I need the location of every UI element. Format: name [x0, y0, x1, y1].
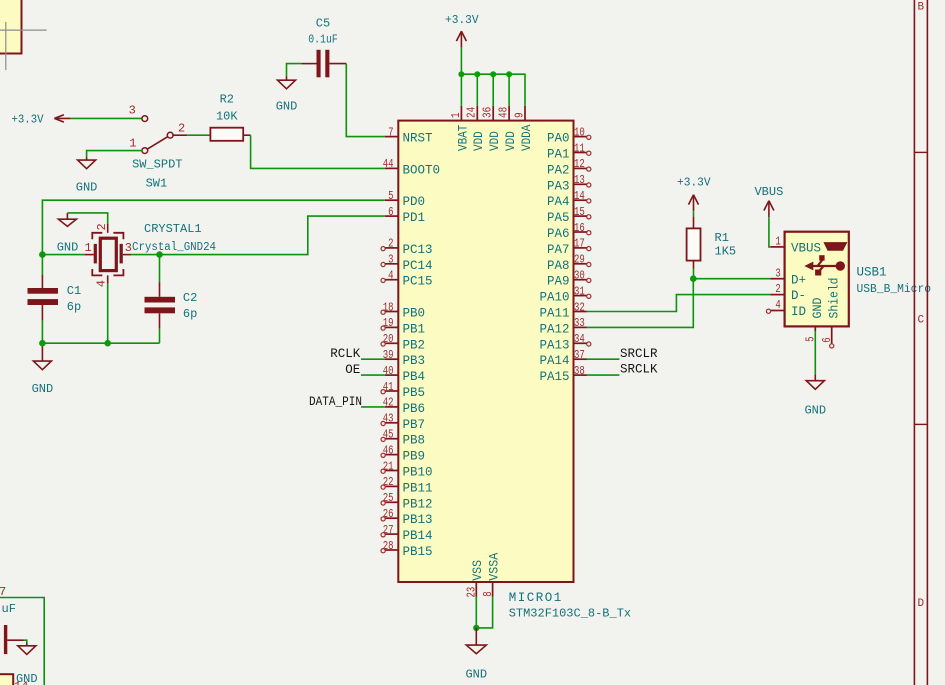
wire +3.3V to SW1 pin 3 — [71, 117, 142, 119]
MCU pin PC15 (4) — [385, 279, 398, 281]
svg-text:GND: GND — [465, 668, 487, 682]
wire bottom rail — [42, 342, 159, 344]
svg-text:PB0: PB0 — [403, 307, 426, 321]
wire VDD drop at x=461.4 — [460, 74, 462, 106]
svg-text:GND: GND — [76, 181, 98, 195]
svg-text:GND: GND — [57, 241, 79, 255]
crystal pin 3 lead — [123, 254, 131, 256]
+3.3V power symbol above MCU — [456, 31, 466, 47]
svg-text:R1: R1 — [715, 231, 729, 245]
svg-text:PB4: PB4 — [403, 370, 426, 384]
svg-text:C1: C1 — [67, 284, 81, 298]
svg-text:PA5: PA5 — [547, 211, 570, 225]
svg-text:+3.3V: +3.3V — [677, 175, 711, 189]
svg-text:+3.3V: +3.3V — [12, 113, 45, 127]
svg-text:SRCLK: SRCLK — [620, 363, 658, 377]
svg-text:17: 17 — [574, 237, 585, 251]
R1 pin 1 lead — [693, 216, 695, 228]
svg-text:43: 43 — [383, 412, 394, 426]
svg-text:33: 33 — [574, 316, 585, 330]
svg-text:1: 1 — [85, 241, 92, 255]
svg-text:GND: GND — [811, 298, 825, 319]
MCU pin PA4 (14) — [574, 199, 587, 201]
svg-text:D+: D+ — [791, 273, 806, 287]
anchor crosshair horizontal — [0, 29, 47, 31]
capacitor C1 — [28, 288, 59, 294]
svg-text:PA11: PA11 — [539, 307, 569, 321]
junction bottom rail left — [39, 340, 46, 347]
svg-text:PA12: PA12 — [539, 322, 569, 336]
wire PA11 to USB D- — [587, 295, 770, 312]
+3.3V power symbol above R1 — [689, 195, 699, 211]
svg-text:PB5: PB5 — [403, 386, 426, 400]
svg-text:38: 38 — [574, 364, 585, 378]
svg-text:26: 26 — [383, 507, 394, 521]
svg-text:28: 28 — [383, 539, 394, 553]
svg-text:1: 1 — [129, 137, 136, 151]
svg-text:VSSA: VSSA — [488, 552, 502, 580]
C5 pin 2 lead — [329, 63, 346, 65]
svg-text:20: 20 — [383, 332, 394, 346]
svg-text:8: 8 — [481, 591, 495, 596]
svg-text:MICRO1: MICRO1 — [509, 591, 563, 605]
wire junction to USB D+ — [693, 278, 770, 280]
ground above crystal — [66, 213, 68, 219]
svg-text:6: 6 — [388, 205, 393, 219]
C2 pin 2 lead — [159, 313, 161, 329]
svg-text:PA10: PA10 — [539, 291, 569, 305]
partial symbol bottom-left corner — [0, 674, 13, 685]
svg-text:OE: OE — [345, 363, 360, 377]
svg-text:PD1: PD1 — [403, 211, 426, 225]
MCU pin VSS (23) bottom — [475, 582, 477, 597]
svg-text:22: 22 — [383, 475, 394, 489]
wire PB3 stub — [361, 358, 385, 360]
svg-text:NRST: NRST — [403, 132, 434, 146]
svg-text:uF: uF — [2, 602, 16, 616]
svg-text:3: 3 — [775, 266, 780, 280]
svg-text:PA8: PA8 — [547, 259, 570, 273]
svg-text:+3.3V: +3.3V — [445, 13, 479, 27]
svg-text:BOOT0: BOOT0 — [403, 163, 441, 177]
svg-text:VDD: VDD — [488, 131, 502, 151]
junction R1/D+/PA12 — [690, 275, 697, 282]
wire junction to C1 — [41, 255, 43, 275]
sheet border tick C/D — [914, 423, 927, 425]
svg-text:VBUS: VBUS — [791, 242, 821, 256]
MCU pin PA2 (12) — [574, 167, 587, 169]
svg-text:PA3: PA3 — [547, 179, 570, 193]
junction +3.3V rail — [506, 71, 512, 77]
svg-text:PB10: PB10 — [403, 466, 433, 480]
crystal pin 2 lead — [107, 224, 109, 233]
svg-text:USB1: USB1 — [857, 266, 887, 280]
svg-text:PA7: PA7 — [547, 243, 570, 257]
svg-text:PB9: PB9 — [403, 450, 426, 464]
wire SW1 pin1 to GND — [87, 151, 142, 158]
USB1 pin VBUS (1) — [770, 246, 784, 248]
sheet border inner line — [913, 0, 915, 685]
svg-text:PA6: PA6 — [547, 227, 570, 241]
svg-text:44: 44 — [383, 157, 394, 171]
svg-text:9: 9 — [512, 112, 526, 118]
svg-text:PA2: PA2 — [547, 163, 570, 177]
wire crystal pin 3 to right junction — [131, 254, 159, 256]
svg-text:10: 10 — [574, 125, 585, 139]
svg-text:C: C — [917, 315, 924, 327]
svg-text:3: 3 — [125, 241, 132, 255]
MCU pin BOOT0 (44) — [385, 167, 398, 169]
R2 pin 2 lead — [243, 134, 250, 136]
microcontroller U MICRO1 STM32F103C_8-B_Tx body — [398, 121, 573, 582]
svg-text:PA0: PA0 — [547, 132, 570, 146]
crystal pin 1 lead — [84, 254, 93, 256]
svg-text:41: 41 — [383, 380, 394, 394]
svg-text:PC13: PC13 — [403, 243, 433, 257]
wire VSSA down — [476, 597, 492, 628]
MCU pin PC14 (3) — [385, 263, 398, 265]
MCU pin PD0 (5) — [385, 199, 398, 201]
wire GND to crystal pin 2 — [67, 213, 107, 224]
svg-text:GND: GND — [276, 99, 298, 113]
svg-text:30: 30 — [574, 269, 585, 283]
MCU pin PA1 (11) — [574, 152, 587, 154]
wire VBUS to USB pin 1 — [769, 217, 770, 247]
MCU pin PB10 (21) — [385, 470, 398, 472]
svg-text:2: 2 — [95, 223, 109, 230]
MCU pin PA10 (31) — [574, 295, 587, 297]
MCU pin PC13 (2) — [385, 247, 398, 249]
MCU pin PB0 (18) — [385, 311, 398, 313]
MCU pin PA13 (34) — [574, 342, 587, 344]
svg-text:4: 4 — [388, 269, 393, 283]
USB1 pin D+ (3) — [770, 278, 784, 280]
svg-text:PC14: PC14 — [403, 259, 433, 273]
MCU pin VDDA (9) top — [524, 106, 526, 121]
svg-text:Shield: Shield — [827, 278, 841, 319]
MCU pin PA3 (13) — [574, 183, 587, 185]
svg-text:31: 31 — [574, 284, 585, 298]
wire junction to C2 — [159, 255, 161, 283]
C5 pin 1 lead — [301, 63, 316, 65]
wire C1 to bottom rail — [41, 321, 43, 344]
svg-text:DATA_PIN: DATA_PIN — [309, 395, 362, 409]
svg-text:37: 37 — [574, 348, 585, 362]
MCU pin NRST (7) — [385, 136, 398, 138]
svg-text:C2: C2 — [183, 291, 197, 305]
wire capacitor to GND bottom-left — [24, 640, 27, 642]
MCU pin PA9 (30) — [574, 279, 587, 281]
MCU pin PA5 (15) — [574, 215, 587, 217]
svg-text:18: 18 — [383, 300, 394, 314]
wire R2 to BOOT0 — [251, 135, 385, 168]
wire USB GND down — [814, 331, 816, 375]
junction PD1/crystal right — [156, 251, 163, 258]
MCU pin PA8 (29) — [574, 263, 587, 265]
svg-text:PB6: PB6 — [403, 402, 426, 416]
MCU pin PB5 (41) — [385, 390, 398, 392]
MCU pin PB1 (19) — [385, 326, 398, 328]
svg-text:PA4: PA4 — [547, 195, 570, 209]
MCU pin PA14 (37) — [574, 358, 587, 360]
crystal pin 4 lead — [107, 275, 109, 283]
svg-text:0.1uF: 0.1uF — [308, 32, 338, 46]
resistor R1 — [687, 228, 701, 260]
svg-text:USB_B_Micro: USB_B_Micro — [857, 282, 932, 296]
svg-text:11: 11 — [574, 141, 585, 155]
junction +3.3V rail — [458, 71, 464, 77]
partial capacitor lead — [7, 639, 23, 641]
svg-text:D-: D- — [791, 289, 806, 303]
MCU pin PA11 (32) — [574, 311, 587, 313]
crystal shield bracket corners — [92, 233, 123, 276]
MCU pin PB3 (39) — [385, 358, 398, 360]
wire bottom-left — [0, 598, 44, 685]
svg-text:3: 3 — [388, 253, 393, 267]
junction PD0/crystal left — [39, 251, 46, 258]
svg-text:32: 32 — [574, 300, 585, 314]
svg-text:12: 12 — [574, 157, 585, 171]
svg-text:4: 4 — [775, 298, 780, 312]
svg-text:B: B — [917, 2, 924, 14]
svg-text:PA14: PA14 — [539, 354, 569, 368]
wire VSS down — [475, 597, 477, 628]
svg-text:VDDA: VDDA — [520, 124, 534, 151]
svg-text:1K5: 1K5 — [715, 244, 737, 258]
MCU pin PB7 (43) — [385, 422, 398, 424]
svg-text:4: 4 — [94, 280, 108, 287]
svg-text:13: 13 — [574, 173, 585, 187]
svg-text:RCLK: RCLK — [330, 347, 361, 361]
ground bottom-left — [26, 643, 28, 646]
svg-text:R2: R2 — [220, 93, 234, 107]
wire crystal to PD0 — [42, 200, 385, 254]
MCU pin PB14 (27) — [385, 533, 398, 535]
wire VDD drop at x=477.3 — [476, 74, 478, 106]
svg-text:STM32F103C_8-B_Tx: STM32F103C_8-B_Tx — [509, 607, 631, 621]
svg-text:2: 2 — [178, 121, 185, 135]
MCU pin VBAT (1) top — [460, 106, 462, 121]
USB trident icon — [812, 260, 837, 272]
wire C5 to NRST — [346, 64, 385, 137]
ground below SW1 — [86, 158, 88, 161]
svg-text:45: 45 — [383, 428, 394, 442]
svg-text:PB15: PB15 — [403, 545, 433, 559]
USB1 pin ID (4) — [770, 310, 784, 312]
svg-text:VBAT: VBAT — [456, 124, 470, 151]
svg-text:PD0: PD0 — [403, 195, 426, 209]
wire C2 to bottom rail — [159, 329, 161, 343]
svg-text:1: 1 — [449, 112, 463, 118]
MCU pin VDD (24) top — [476, 106, 478, 121]
svg-text:VDD: VDD — [504, 131, 518, 151]
wire VDD drop at x=509.1 — [508, 74, 510, 106]
MCU pin PB8 (45) — [385, 438, 398, 440]
USB connector USB1 USB_B_Micro body — [785, 232, 849, 327]
svg-text:7: 7 — [388, 125, 393, 139]
svg-text:3: 3 — [129, 104, 136, 118]
MCU pin VDD (36) top — [492, 106, 494, 121]
anchor crosshair vertical — [5, 22, 7, 70]
MCU pin PB12 (25) — [385, 501, 398, 503]
SW1 lever pin1 to pin2 — [147, 137, 168, 150]
switch SW1 SW_SPDT — [142, 116, 148, 122]
wire R1 to junction — [693, 269, 695, 279]
svg-text:23: 23 — [464, 587, 478, 598]
svg-text:PA1: PA1 — [547, 148, 570, 162]
svg-text:48: 48 — [497, 107, 511, 118]
MCU pin PD1 (6) — [385, 215, 398, 217]
MCU pin PA15 (38) — [574, 374, 587, 376]
ground below MCU — [475, 628, 477, 645]
wire C5 to GND — [287, 64, 302, 77]
wire crystal to PD1 — [160, 216, 385, 255]
svg-text:Crystal_GND24: Crystal_GND24 — [132, 241, 216, 254]
USB plug icon — [824, 243, 846, 251]
svg-text:PB7: PB7 — [403, 418, 426, 432]
MCU pin PB11 (22) — [385, 485, 398, 487]
svg-text:PB13: PB13 — [403, 513, 433, 527]
svg-text:PB14: PB14 — [403, 529, 433, 543]
MCU pin PA12 (33) — [574, 326, 587, 328]
wire crystal pin 4 down — [107, 284, 109, 344]
svg-text:SW1: SW1 — [146, 176, 168, 190]
junction +3.3V rail — [490, 71, 496, 77]
C2 pin 1 lead — [159, 282, 161, 297]
SW1 pin 2 lead — [173, 134, 187, 136]
crystal CRYSTAL1 Crystal_GND24 — [100, 238, 116, 270]
svg-text:PB1: PB1 — [403, 322, 426, 336]
svg-text:21: 21 — [383, 459, 394, 473]
svg-text:46: 46 — [383, 443, 394, 457]
svg-text:SW_SPDT: SW_SPDT — [132, 158, 182, 172]
svg-text:2: 2 — [775, 282, 780, 296]
svg-text:PB3: PB3 — [403, 354, 426, 368]
svg-text:34: 34 — [574, 332, 585, 346]
wire PB6 stub — [361, 406, 385, 408]
svg-text:29: 29 — [574, 253, 585, 267]
svg-text:19: 19 — [383, 316, 394, 330]
svg-text:GND: GND — [32, 382, 54, 396]
wire VDD drop at x=493.2 — [492, 74, 494, 106]
resistor R2 — [210, 128, 243, 141]
wire PA12 to R1 junction — [587, 279, 693, 328]
svg-text:GND: GND — [804, 404, 826, 418]
wire left junction to crystal pin 1 — [42, 254, 84, 256]
svg-text:PB11: PB11 — [403, 481, 433, 495]
capacitor C5 — [317, 50, 321, 78]
MCU pin PB4 (40) — [385, 374, 398, 376]
svg-text:PC15: PC15 — [403, 275, 433, 289]
svg-text:PA15: PA15 — [539, 370, 569, 384]
ground below C5 — [286, 76, 288, 80]
svg-text:6: 6 — [820, 337, 834, 342]
svg-text:PB8: PB8 — [403, 434, 426, 448]
junction bottom rail crystal pin 4 — [104, 340, 111, 347]
C1 pin 1 lead — [41, 275, 43, 288]
svg-text:25: 25 — [383, 491, 394, 505]
wire SW1 to R2 — [187, 134, 210, 136]
svg-text:PA13: PA13 — [539, 338, 569, 352]
MCU pin VSSA (8) bottom — [492, 582, 494, 597]
wire +3.3V to R1 — [693, 211, 695, 216]
MCU pin PB2 (20) — [385, 342, 398, 344]
MCU pin PB6 (42) — [385, 406, 398, 408]
svg-text:PB2: PB2 — [403, 338, 426, 352]
svg-text:24: 24 — [465, 107, 479, 118]
svg-text:14: 14 — [574, 189, 585, 203]
capacitor C2 — [145, 297, 176, 303]
wire +3.3V rail above MCU — [461, 48, 525, 106]
svg-text:ID: ID — [791, 305, 806, 319]
svg-text:5: 5 — [388, 189, 393, 203]
svg-text:27: 27 — [383, 523, 394, 537]
sheet border outer line — [926, 0, 928, 685]
MCU pin PB13 (26) — [385, 517, 398, 519]
USB1 pin Shield (6) bottom — [831, 326, 833, 343]
svg-text:6p: 6p — [67, 300, 81, 314]
svg-text:36: 36 — [481, 107, 495, 118]
svg-text:2: 2 — [388, 237, 393, 251]
junction +3.3V rail — [474, 71, 480, 77]
svg-text:PB12: PB12 — [403, 497, 433, 511]
svg-text:C5: C5 — [316, 16, 330, 30]
wire PA15 stub — [587, 374, 620, 376]
VBUS power symbol — [764, 201, 774, 217]
USB1 pin GND (5) bottom — [814, 326, 816, 331]
partial symbol top-left corner — [0, 0, 22, 54]
svg-text:15: 15 — [574, 205, 585, 219]
C1 pin 2 lead — [41, 305, 43, 321]
svg-text:VSS: VSS — [471, 560, 485, 581]
ground below C1 — [41, 346, 43, 361]
svg-text:16: 16 — [574, 221, 585, 235]
svg-text:D: D — [917, 598, 924, 610]
sheet border tick B/C — [914, 151, 927, 153]
ground below USB — [814, 375, 816, 381]
svg-text:10K: 10K — [216, 110, 238, 124]
USB1 pin D- (2) — [770, 294, 784, 296]
MCU pin PA7 (17) — [574, 247, 587, 249]
MCU pin PA0 (10) — [574, 136, 587, 138]
svg-text:SRCLR: SRCLR — [620, 347, 658, 361]
+3.3V power symbol left (horizontal arrow) — [54, 115, 70, 122]
wire PA14 stub — [587, 358, 620, 360]
MCU pin PB9 (46) — [385, 454, 398, 456]
junction VSS/VSSA — [473, 625, 479, 631]
svg-text:PA9: PA9 — [547, 275, 570, 289]
svg-text:6p: 6p — [183, 307, 197, 321]
svg-text:VDD: VDD — [472, 131, 486, 151]
svg-text:VBUS: VBUS — [754, 185, 783, 199]
svg-text:1: 1 — [775, 235, 780, 249]
svg-text:14: 14 — [14, 680, 28, 685]
partial capacitor plate bottom-left — [4, 625, 7, 654]
MCU pin PA6 (16) — [574, 231, 587, 233]
MCU pin PB15 (28) — [385, 549, 398, 551]
svg-text:CRYSTAL1: CRYSTAL1 — [144, 222, 202, 236]
R1 pin 2 lead — [693, 261, 695, 269]
wire PB4 stub — [361, 374, 385, 376]
MCU pin VDD (48) top — [508, 106, 510, 121]
